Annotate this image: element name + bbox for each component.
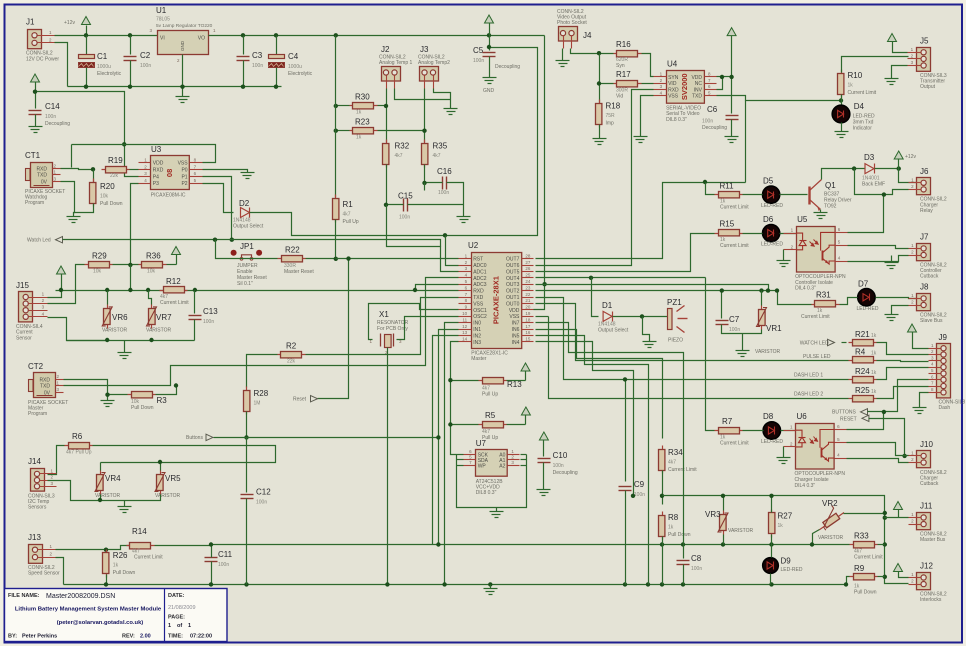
terminal Reset xyxy=(293,396,318,403)
svg-text:100n: 100n xyxy=(252,63,263,69)
svg-text:22: 22 xyxy=(525,292,531,297)
wire pulse led long xyxy=(536,304,849,361)
junction C15 left node xyxy=(384,203,388,207)
junction ADC3 on bus290 xyxy=(413,288,417,292)
wire OUT5 riser to R15 xyxy=(536,234,715,272)
wire U3 P2 to D2 xyxy=(203,184,234,213)
junction R31 riser xyxy=(775,288,779,292)
wire U4 TXD out xyxy=(717,96,842,101)
svg-text:100n: 100n xyxy=(702,119,713,125)
svg-text:J3: J3 xyxy=(420,45,429,54)
junction R19 R20 xyxy=(91,167,95,171)
wire R19 node vert xyxy=(93,170,95,183)
wire 5v rail down to U2 VDD xyxy=(534,36,545,310)
resistor R1 xyxy=(333,195,359,226)
capacitor C16 xyxy=(437,167,452,196)
ground below C10 xyxy=(537,490,551,496)
svg-text:VR7: VR7 xyxy=(156,313,172,322)
svg-text:J2: J2 xyxy=(381,45,390,54)
junction C5 lead xyxy=(487,45,491,49)
wire R22 right to RST node xyxy=(306,258,336,260)
svg-text:Sensor: Sensor xyxy=(16,335,32,341)
resistor R17 xyxy=(614,70,642,99)
wire X1 case down to bus xyxy=(387,348,389,585)
capacitor C10 xyxy=(538,451,578,476)
terminal WATCH LED xyxy=(800,339,835,346)
svg-text:100n: 100n xyxy=(218,562,229,568)
svg-text:C6: C6 xyxy=(707,105,718,114)
wire J9 pin8 ground xyxy=(920,393,929,408)
ground below U5 pin2 xyxy=(777,261,791,267)
wire D6 left xyxy=(743,233,763,235)
svg-text:C1: C1 xyxy=(97,52,108,61)
led D9 xyxy=(763,558,779,574)
wire U1 GND pin down xyxy=(182,55,184,87)
wire C14 node to U3 P4 xyxy=(36,92,139,177)
svg-text:P1: P1 xyxy=(181,174,187,180)
svg-text:C3: C3 xyxy=(252,51,263,60)
wire J5 pin3 ground xyxy=(892,66,908,79)
svg-text:RXD: RXD xyxy=(39,377,50,383)
wire U5 pin2 ground xyxy=(783,250,785,261)
wire D8 left xyxy=(743,430,764,432)
jumper JP1 xyxy=(231,242,268,287)
led D5 xyxy=(763,186,780,203)
svg-text:Electrolytic: Electrolytic xyxy=(288,71,313,77)
svg-text:OUT1: OUT1 xyxy=(506,295,520,301)
svg-text:Relay: Relay xyxy=(920,208,933,214)
wire C16 right xyxy=(447,183,464,217)
wire R27 top xyxy=(771,496,773,513)
wire R18 top xyxy=(599,84,601,104)
capacitor C12 xyxy=(241,488,272,506)
svg-text:100n: 100n xyxy=(399,215,410,221)
ground below J7 xyxy=(885,263,899,269)
connector J13 speed sensor xyxy=(28,533,60,576)
wire C2 bottom lead xyxy=(130,61,132,87)
wire C6 bottom xyxy=(731,120,733,137)
wire R16 right to U4 SYN xyxy=(642,54,654,77)
wire C14 to ground xyxy=(35,115,37,127)
svg-text:Analog Temp 1: Analog Temp 1 xyxy=(379,60,412,66)
svg-text:TXD: TXD xyxy=(40,384,50,390)
svg-text:IN3: IN3 xyxy=(473,340,481,346)
wire J1 pin2 to gnd bus xyxy=(55,43,68,87)
svg-text:Lithium Battery Management Sys: Lithium Battery Management System Master… xyxy=(15,607,162,613)
microcontroller U2 PICAXE-28X1 xyxy=(459,241,534,362)
svg-text:20: 20 xyxy=(525,305,531,310)
svg-text:VARISTOR: VARISTOR xyxy=(95,493,120,499)
wire D6 right to U5 xyxy=(780,233,797,235)
wire R11 feed xyxy=(706,183,715,195)
wire R28 bottom xyxy=(246,412,248,438)
wire watchled to R21 xyxy=(842,342,847,344)
capacitor C5 xyxy=(473,46,496,64)
svg-text:16: 16 xyxy=(525,330,531,335)
svg-text:Pull Up: Pull Up xyxy=(343,219,359,225)
wire C4 bottom lead xyxy=(276,68,278,87)
svg-text:IN1: IN1 xyxy=(473,327,481,333)
led D8 xyxy=(763,422,780,439)
junctions VR bottoms xyxy=(105,338,154,342)
svg-text:R18: R18 xyxy=(606,102,621,111)
piezo PZ1 xyxy=(667,298,688,344)
wire D5 left xyxy=(743,194,763,196)
ground below C15 C16 xyxy=(457,217,471,223)
svg-text:21/08/2009: 21/08/2009 xyxy=(168,605,196,611)
wire OUT7 riser xyxy=(536,183,746,259)
svg-text:1k: 1k xyxy=(848,82,854,88)
wire CT2 RXD right xyxy=(64,380,108,395)
resistor R7 xyxy=(715,417,750,446)
resistor R16 xyxy=(614,40,642,69)
diode D1 1N4148 xyxy=(603,311,612,321)
wire R17 feed xyxy=(600,54,614,84)
wire R3 right up xyxy=(156,386,177,395)
svg-text:U1: U1 xyxy=(156,6,167,15)
svg-text:Buttons: Buttons xyxy=(186,435,203,441)
wire ADC3 stub xyxy=(416,285,459,291)
svg-text:Dash: Dash xyxy=(939,405,951,411)
wire C3 top lead xyxy=(243,36,245,55)
svg-text:IN4: IN4 xyxy=(512,340,520,346)
wire U7 a0 link xyxy=(521,454,527,456)
wire C15 left xyxy=(387,204,404,206)
junction C9 top xyxy=(623,377,627,381)
wire OUT3 row xyxy=(536,285,769,291)
svg-text:Master Bus: Master Bus xyxy=(920,537,946,543)
wire CT1 0V down xyxy=(61,182,75,213)
wire mid bus y544 xyxy=(155,545,850,546)
wire R5 right arrow xyxy=(507,424,526,426)
wire U1 VO to 5v rail xyxy=(209,35,545,37)
svg-text:100n: 100n xyxy=(438,190,449,196)
svg-text:IN7: IN7 xyxy=(512,321,520,327)
svg-text:R19: R19 xyxy=(108,156,123,165)
power terminal above C5 xyxy=(485,15,494,23)
wire RST to U2 xyxy=(336,258,459,260)
svg-text:1k: 1k xyxy=(778,523,784,529)
terminal BUTTONS xyxy=(832,409,868,416)
svg-text:NC: NC xyxy=(695,81,703,87)
svg-text:P3: P3 xyxy=(153,181,159,187)
socket CT2 master program xyxy=(28,362,68,417)
wire D9 bottom xyxy=(770,574,772,585)
svg-text:13: 13 xyxy=(462,330,468,335)
wire J15 pin1 to bus290 xyxy=(48,297,62,298)
svg-text:SV2000: SV2000 xyxy=(680,73,689,100)
svg-text:Current Limit: Current Limit xyxy=(160,300,189,306)
varistor VR3 xyxy=(705,510,753,535)
wire R31 to D7 xyxy=(840,298,858,305)
svg-text:VSS: VSS xyxy=(668,94,679,100)
svg-text:Decoupling: Decoupling xyxy=(702,125,727,131)
svg-text:D3: D3 xyxy=(864,153,875,162)
wire gnd bus stem xyxy=(182,87,184,97)
svg-text:U7: U7 xyxy=(476,439,487,448)
wire J8 pin2 ground xyxy=(892,306,909,315)
power terminal right of R13 xyxy=(521,363,530,371)
junction R29 R36 xyxy=(128,263,132,267)
svg-text:Pull Down: Pull Down xyxy=(854,590,877,596)
wire U5 pin4 to J7 pin2 xyxy=(848,256,909,262)
svg-text:Decoupling: Decoupling xyxy=(495,64,520,70)
svg-text:C7: C7 xyxy=(729,315,740,324)
wire U6 pin2 ground xyxy=(783,447,785,458)
svg-text:P0: P0 xyxy=(181,168,187,174)
svg-text:OUT3: OUT3 xyxy=(506,282,520,288)
led D7 xyxy=(858,289,875,306)
svg-text:VID: VID xyxy=(668,81,677,87)
svg-text:OUT5: OUT5 xyxy=(506,269,520,275)
wire J1 pin1 to +12v rail xyxy=(55,35,158,37)
svg-text:LED-RED: LED-RED xyxy=(857,306,879,312)
svg-text:1k: 1k xyxy=(113,563,119,569)
wire J11 arrow stem xyxy=(898,510,900,518)
wire C12 top xyxy=(246,438,248,493)
svg-text:VR1: VR1 xyxy=(766,324,782,333)
ground below D4 xyxy=(835,132,849,138)
junction P1 watch line xyxy=(230,238,234,242)
wire VR1 top xyxy=(761,291,763,306)
connector J11 master bus xyxy=(909,502,947,543)
svg-text:VDD: VDD xyxy=(153,161,164,167)
svg-text:Back EMF: Back EMF xyxy=(862,182,885,188)
svg-text:1: 1 xyxy=(168,623,171,629)
ground below C7 VR1 xyxy=(736,351,750,357)
svg-text:R23: R23 xyxy=(355,117,370,126)
svg-text:R3: R3 xyxy=(157,396,168,405)
capacitor C9 xyxy=(619,480,646,498)
wire J2 pin1 column xyxy=(386,89,388,143)
svg-text:4k7: 4k7 xyxy=(668,460,676,466)
junction watch led jp1 xyxy=(213,238,217,242)
resistor R35 xyxy=(422,140,448,168)
svg-text:U6: U6 xyxy=(797,412,808,421)
svg-text:FILE NAME:: FILE NAME: xyxy=(8,593,40,599)
wire IN6 riser to R34 xyxy=(536,330,663,439)
svg-text:J1: J1 xyxy=(26,18,35,27)
capacitor C8 xyxy=(677,554,703,572)
svg-text:C8: C8 xyxy=(691,554,702,563)
wire JP1 left xyxy=(216,240,278,259)
junction R3 TXD xyxy=(174,383,178,387)
junctions bus290 xyxy=(59,288,197,292)
wire VR2 left down xyxy=(813,530,820,545)
svg-text:OUT6: OUT6 xyxy=(506,263,520,269)
junctions on 5v rail xyxy=(84,33,491,37)
svg-text:REV:: REV: xyxy=(122,634,135,640)
svg-text:10k: 10k xyxy=(93,269,102,275)
svg-text:1k: 1k xyxy=(871,389,877,395)
wire U7 left rail xyxy=(457,455,527,508)
connector J3 Analog Temp2 xyxy=(418,45,450,89)
junction reset rst xyxy=(346,256,350,260)
wire IN1 column xyxy=(439,330,459,545)
wire J11 pin1 feed xyxy=(885,517,909,519)
wire J5 pin1 12v xyxy=(893,42,908,53)
ground below Q1 xyxy=(814,213,828,219)
svg-text:Pull Down: Pull Down xyxy=(668,532,691,538)
connector J10 charger cutback xyxy=(909,440,947,487)
svg-text:VARISTOR: VARISTOR xyxy=(818,535,843,541)
ground below U1 xyxy=(176,97,190,103)
wire U6 pin4 to J10 pin2 xyxy=(847,459,909,463)
svg-text:J5: J5 xyxy=(920,37,929,46)
resistor R19 xyxy=(102,156,130,179)
ground below C5 xyxy=(483,78,497,84)
svg-text:J7: J7 xyxy=(920,233,929,242)
wire J4 pin1 ground xyxy=(562,49,564,61)
ground below varistors xyxy=(118,353,132,359)
svg-text:IN6: IN6 xyxy=(512,327,520,333)
svg-text:DIL4 0.3": DIL4 0.3" xyxy=(795,286,816,292)
power terminal above C10 xyxy=(539,432,548,440)
svg-text:IN2: IN2 xyxy=(473,333,481,339)
svg-text:100n: 100n xyxy=(203,319,214,325)
wire bus y290 xyxy=(56,290,459,292)
wire R10 bottom to D4 xyxy=(841,95,843,106)
wire arrow stem R13 xyxy=(525,372,527,381)
junction R3 left xyxy=(105,393,109,397)
junction R23 nodes xyxy=(334,129,427,133)
resistor R13 xyxy=(479,378,523,398)
svg-text:U3: U3 xyxy=(151,145,162,154)
svg-text:VARISTOR: VARISTOR xyxy=(155,493,180,499)
svg-text:Syn: Syn xyxy=(616,63,625,69)
junction INV tie xyxy=(720,75,724,79)
wire C9 bottom xyxy=(625,491,627,585)
wire U3 VDD rail xyxy=(72,145,216,163)
svg-text:4k7 Pull Up: 4k7 Pull Up xyxy=(66,450,92,456)
svg-text:Current Limit: Current Limit xyxy=(848,90,877,96)
wire J2 pin2 to ground xyxy=(395,89,451,100)
optocoupler U5 xyxy=(784,215,848,292)
svg-text:J12: J12 xyxy=(920,562,933,571)
labels D9 xyxy=(781,557,803,573)
wire R30 right xyxy=(378,105,387,107)
wire VR7 top xyxy=(149,291,152,305)
svg-text:VR5: VR5 xyxy=(165,474,181,483)
svg-text:R7: R7 xyxy=(722,417,733,426)
wire R23 right xyxy=(378,130,425,132)
ground below J4 xyxy=(556,61,570,67)
svg-text:R30: R30 xyxy=(355,93,370,102)
svg-text:Current Limit: Current Limit xyxy=(134,555,163,561)
ground below R3 left xyxy=(101,401,115,407)
svg-text:J10: J10 xyxy=(920,440,933,449)
wire R35 column to U2 xyxy=(424,183,426,191)
wire R17 right to U4 VID xyxy=(642,83,654,85)
terminal Buttons xyxy=(186,434,213,441)
wire X1 pin3 to OSC2 xyxy=(397,317,459,340)
svg-text:R1: R1 xyxy=(343,200,354,209)
ground below U6 pin2 xyxy=(777,458,791,464)
svg-text:VARISTOR: VARISTOR xyxy=(755,349,780,355)
svg-text:5v 1amp Regulator TO220: 5v 1amp Regulator TO220 xyxy=(156,23,213,29)
svg-text:Output: Output xyxy=(920,84,936,90)
wire IN3 column to U7 xyxy=(451,342,459,455)
svg-text:Peter Perkins: Peter Perkins xyxy=(22,634,57,640)
svg-text:OUT2: OUT2 xyxy=(506,289,520,295)
svg-text:Decoupling: Decoupling xyxy=(553,470,578,476)
svg-text:P2: P2 xyxy=(181,181,187,187)
svg-text:DATE:: DATE: xyxy=(168,593,185,599)
wire R26 top stem xyxy=(106,550,108,554)
wire VSS stub xyxy=(536,316,549,318)
junction D3 12v xyxy=(897,166,901,170)
wire J6 pin2 to U5 p6 xyxy=(848,195,884,233)
wire Reset vertical xyxy=(318,259,349,399)
resistor R26 xyxy=(103,550,136,578)
wire bottom bus ground stem xyxy=(490,585,492,589)
wire Q1 collector up xyxy=(822,169,865,180)
junction R17 tap xyxy=(597,51,601,55)
svg-text:R17: R17 xyxy=(616,70,631,79)
wire D2 right long xyxy=(250,48,538,236)
svg-text:LED-RED: LED-RED xyxy=(781,567,803,573)
connector J8 slave bus xyxy=(909,283,947,324)
wire X1 pin1 to OSC1 xyxy=(369,304,459,340)
resistor R36 xyxy=(139,252,167,275)
svg-text:R11: R11 xyxy=(720,181,735,190)
svg-text:+12v: +12v xyxy=(905,154,916,160)
wire R33 right xyxy=(878,544,885,546)
junction C7 col xyxy=(720,288,724,292)
wire R9 left to bus xyxy=(847,577,850,585)
svg-text:Watch Led: Watch Led xyxy=(27,238,51,244)
svg-text:IN0: IN0 xyxy=(473,321,481,327)
svg-text:ADC2: ADC2 xyxy=(473,276,487,282)
wire C7 VR1 bottoms xyxy=(722,325,762,334)
wire OUT2 row to C7 VR1 xyxy=(536,290,778,292)
junction D3 coil node xyxy=(852,166,856,170)
svg-text:R14: R14 xyxy=(132,527,147,536)
video IC U4 SV2000 xyxy=(654,60,717,123)
svg-text:VR4: VR4 xyxy=(105,474,121,483)
svg-text:R22: R22 xyxy=(285,245,300,254)
power terminal J5 xyxy=(888,34,897,42)
svg-text:Sensors: Sensors xyxy=(28,505,47,511)
svg-text:C10: C10 xyxy=(553,451,568,460)
terminal RESET xyxy=(840,415,869,422)
svg-text:A2: A2 xyxy=(499,463,505,469)
junction buttons IN1 col xyxy=(436,435,440,439)
wire CT2 TXD right xyxy=(64,278,459,386)
svg-text:R13: R13 xyxy=(507,380,522,389)
svg-text:100n: 100n xyxy=(729,327,740,333)
capacitor C2 xyxy=(124,51,152,69)
wire C8 bottom xyxy=(683,565,685,585)
resistor R3 xyxy=(128,392,168,412)
wire D1 branch xyxy=(592,278,599,317)
svg-text:R5: R5 xyxy=(485,411,496,420)
svg-text:R32: R32 xyxy=(395,142,410,151)
wire U7 wp stub xyxy=(457,465,464,467)
svg-text:R35: R35 xyxy=(433,142,448,151)
junction R5 col xyxy=(448,422,452,426)
svg-text:D8: D8 xyxy=(763,412,774,421)
svg-text:15: 15 xyxy=(525,337,531,342)
wire R3 left xyxy=(108,395,128,401)
wire C13 top xyxy=(194,291,196,314)
junction RST node xyxy=(334,257,338,261)
ground below U4 xyxy=(634,137,648,143)
ground below VR4 VR5 xyxy=(118,507,132,513)
svg-text:J14: J14 xyxy=(28,457,41,466)
svg-text:100n: 100n xyxy=(256,500,267,506)
svg-text:1M: 1M xyxy=(254,401,261,407)
